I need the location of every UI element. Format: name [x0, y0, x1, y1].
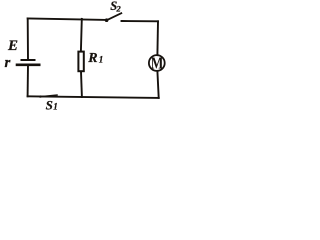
svg-text:1: 1	[53, 102, 58, 112]
svg-text:r: r	[5, 55, 11, 71]
svg-text:M: M	[151, 53, 164, 72]
svg-text:R: R	[87, 51, 97, 66]
svg-text:2: 2	[116, 4, 122, 14]
svg-text:S: S	[46, 97, 53, 112]
svg-text:E: E	[7, 38, 18, 54]
svg-text:1: 1	[99, 55, 104, 65]
